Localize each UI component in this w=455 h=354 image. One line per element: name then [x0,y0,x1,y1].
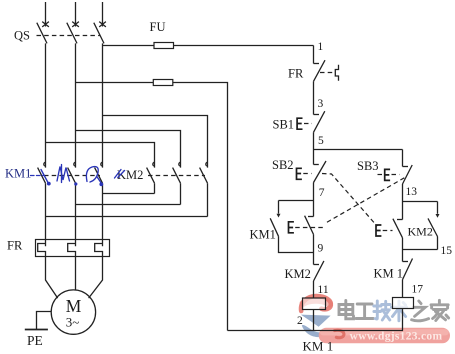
svg-text:KM2: KM2 [408,225,433,239]
svg-text:FU: FU [150,20,166,34]
svg-text:www.dgjs123.com: www.dgjs123.com [350,330,443,342]
svg-text:13: 13 [406,186,418,198]
svg-text:3~: 3~ [66,315,80,330]
svg-text:5: 5 [318,135,324,147]
svg-text:11: 11 [318,284,329,296]
svg-text:15: 15 [441,245,453,257]
svg-text:SB1: SB1 [273,118,295,132]
svg-text:KM1: KM1 [250,228,276,242]
svg-text:QS: QS [14,29,30,43]
svg-text:KM 1: KM 1 [374,267,404,281]
svg-text:PE: PE [27,333,43,348]
svg-text:SB2: SB2 [272,158,294,172]
svg-text:KM1: KM1 [5,167,31,181]
svg-text:M: M [66,296,82,316]
svg-text:3: 3 [318,98,324,110]
svg-text:9: 9 [318,243,324,255]
svg-text:KM 1: KM 1 [303,339,334,354]
svg-text:SB3: SB3 [357,159,379,173]
svg-text:FR: FR [7,239,23,253]
svg-text:FR: FR [288,67,304,81]
svg-text:17: 17 [412,284,424,296]
svg-text:7: 7 [319,187,325,199]
svg-text:KM2: KM2 [285,267,311,281]
svg-text:2: 2 [297,315,303,327]
svg-text:1: 1 [318,41,324,53]
